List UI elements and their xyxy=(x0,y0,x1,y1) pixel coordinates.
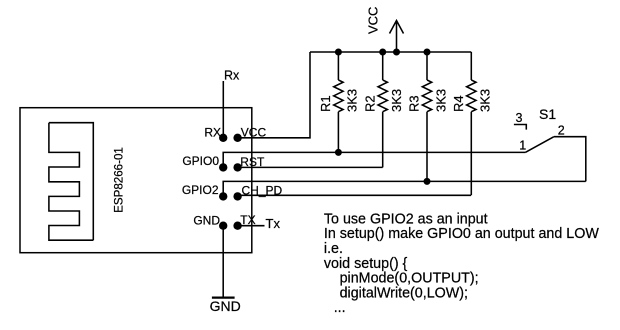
svg-text:Tx: Tx xyxy=(266,216,281,231)
svg-text:R1: R1 xyxy=(318,95,333,112)
svg-text:void setup() {: void setup() { xyxy=(324,256,408,272)
svg-text:VCC: VCC xyxy=(241,125,267,139)
svg-text:GND: GND xyxy=(210,298,241,314)
svg-text:In setup() make GPIO0 an outpu: In setup() make GPIO0 an output and LOW xyxy=(324,226,599,242)
svg-text:RX: RX xyxy=(204,125,221,139)
wire GPIO2 net xyxy=(223,181,586,196)
resistor R3 xyxy=(422,52,431,181)
pin dot RST xyxy=(233,163,241,171)
wire VCC pin to rail xyxy=(238,52,310,138)
svg-text:3: 3 xyxy=(516,111,523,125)
svg-text:Rx: Rx xyxy=(224,68,240,82)
pin dot RX xyxy=(219,134,227,142)
wire TX stub xyxy=(238,225,265,227)
junction rail R3 xyxy=(424,49,431,56)
pin dot VCC xyxy=(233,134,241,142)
module U1 ESP8266-01 body xyxy=(20,108,252,253)
pin dot GPIO2 xyxy=(219,192,227,200)
svg-text:VCC: VCC xyxy=(366,7,381,34)
wire S1 pin2 to GPIO2 net xyxy=(554,137,586,182)
antenna xyxy=(49,123,93,241)
svg-text:TX: TX xyxy=(240,213,255,227)
switch S1 lever xyxy=(525,137,554,153)
svg-text:i.e.: i.e. xyxy=(324,241,343,257)
resistor R1 xyxy=(334,52,343,152)
svg-text:GPIO2: GPIO2 xyxy=(182,183,219,197)
junction rail R1 xyxy=(335,49,342,56)
power VCC symbol xyxy=(390,21,404,53)
svg-text:R2: R2 xyxy=(362,95,377,112)
svg-text:To use GPIO2 as an input: To use GPIO2 as an input xyxy=(324,211,488,227)
junction rail R2 xyxy=(379,49,386,56)
wire Rx stem xyxy=(222,81,224,138)
wire VCC rail xyxy=(310,51,471,53)
junction rail VCC stem xyxy=(393,49,400,56)
svg-text:pinMode(0,OUTPUT);: pinMode(0,OUTPUT); xyxy=(340,271,479,287)
svg-text:RST: RST xyxy=(240,155,265,169)
pin dot GPIO0 xyxy=(219,163,227,171)
note text block xyxy=(324,211,599,316)
svg-text:R3: R3 xyxy=(407,95,422,112)
junction R3 GPIO2 net xyxy=(424,178,431,185)
svg-text:S1: S1 xyxy=(539,106,556,122)
svg-text:R4: R4 xyxy=(451,95,466,112)
svg-text:3K3: 3K3 xyxy=(433,89,448,112)
svg-text:2: 2 xyxy=(558,123,565,137)
wire CH_PD to R4 xyxy=(238,194,471,196)
svg-text:1: 1 xyxy=(519,139,526,153)
pin dot CH_PD xyxy=(233,192,241,200)
svg-text:...: ... xyxy=(334,300,346,316)
svg-text:3K3: 3K3 xyxy=(345,89,360,112)
resistor R2 xyxy=(378,52,387,167)
wire GPIO0 net to S1 pin1 xyxy=(223,152,525,167)
svg-text:3K3: 3K3 xyxy=(389,89,404,112)
wire GND pin down xyxy=(222,226,224,298)
pin dot TX xyxy=(233,222,241,230)
switch S1 pin3 stub xyxy=(514,125,526,130)
svg-text:GPIO0: GPIO0 xyxy=(182,154,219,168)
junction R1 GPIO0 net xyxy=(335,149,342,156)
svg-text:digitalWrite(0,LOW);: digitalWrite(0,LOW); xyxy=(340,285,468,301)
resistor R4 xyxy=(467,52,476,195)
ground symbol xyxy=(212,297,235,299)
svg-text:GND: GND xyxy=(193,213,220,227)
svg-text:3K3: 3K3 xyxy=(478,89,493,112)
pin dot GND xyxy=(219,222,227,230)
wire RST to R2 xyxy=(238,166,383,168)
svg-text:ESP8266-01: ESP8266-01 xyxy=(112,147,125,213)
svg-text:CH_PD: CH_PD xyxy=(242,183,283,197)
